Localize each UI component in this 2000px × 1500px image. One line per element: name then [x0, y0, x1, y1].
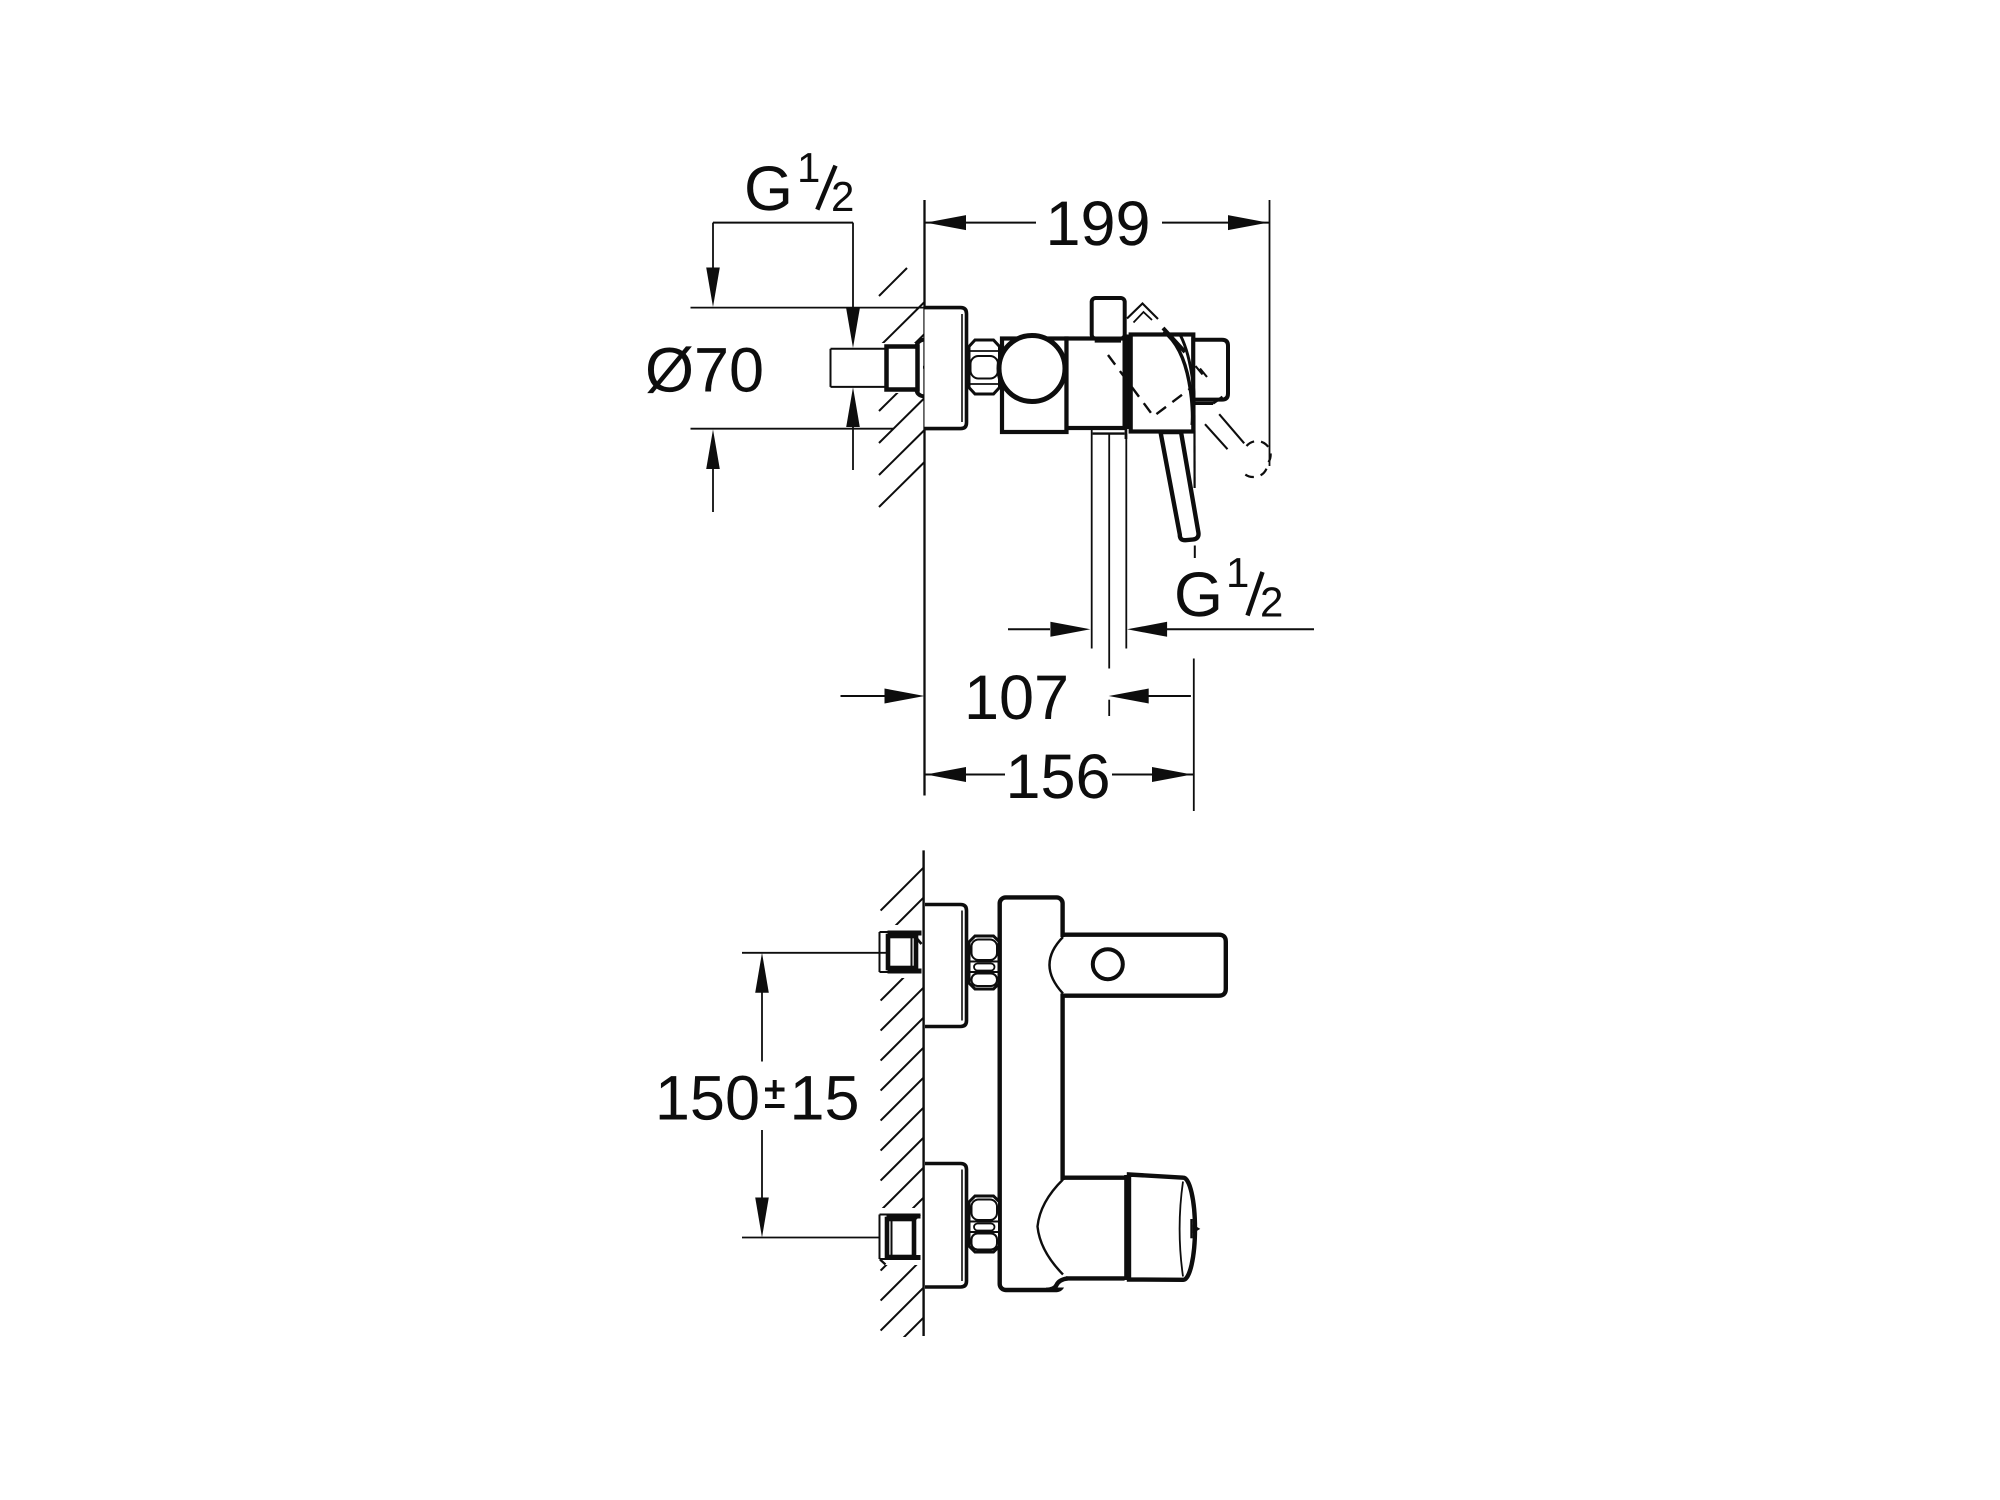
dimension 107: [841, 695, 887, 697]
upper fitting sleeve: [880, 932, 889, 972]
svg-text:199: 199: [1045, 189, 1150, 259]
svg-text:2: 2: [831, 173, 854, 220]
wall hatching (side view): [879, 268, 925, 507]
escutcheon flange (side view): [925, 308, 967, 429]
upper fitting collar: [888, 931, 922, 936]
upper escutcheon flange (front view): [925, 905, 967, 1027]
plus-minus symbol of 150 dim: [765, 1080, 785, 1106]
G1/2 inlet sleeve (side view): [831, 349, 887, 387]
lower escutcheon flange (front view): [925, 1164, 967, 1288]
extension line hose right: [1125, 434, 1127, 649]
pointer right (G1/2 pipe): [852, 223, 854, 310]
aerator: [1194, 399, 1216, 401]
extension line right of 199: [1269, 200, 1271, 466]
lower union square: [887, 1219, 914, 1257]
svg-text:1: 1: [1226, 549, 1249, 596]
mixer body mid section: [1067, 339, 1125, 429]
svg-text:G: G: [1174, 560, 1223, 630]
mixer body (front view): [1000, 897, 1063, 1290]
handle base wedge: [1164, 332, 1193, 426]
svg-text:1: 1: [797, 144, 820, 191]
extension line hose centerline: [1108, 434, 1110, 669]
white mask behind inlet fitting: [828, 343, 923, 393]
dimension G1/2 top label line: [713, 222, 853, 224]
dimension 156: [925, 774, 1006, 776]
white masks behind fittings: [877, 925, 924, 978]
svg-text:107: 107: [964, 663, 1069, 733]
pointer left (d70): [712, 223, 714, 270]
wall hatching (front view): [881, 868, 924, 1361]
svg-text:2: 2: [1260, 579, 1283, 626]
flange highlight line: [961, 314, 963, 422]
extension line hose left: [1091, 430, 1093, 649]
slash of G1/2 top: [817, 166, 835, 210]
svg-text:15: 15: [790, 1064, 860, 1134]
extension lines 150: [742, 952, 887, 954]
lower fitting collar: [887, 1214, 921, 1219]
dimension 150+-15: [755, 953, 769, 993]
slash of G1/2 lower: [1248, 572, 1263, 616]
collar fillets at wall: [916, 340, 924, 349]
lower fitting sleeve: [880, 1215, 888, 1260]
hex nut (side view): [969, 340, 1000, 394]
svg-text:G: G: [744, 154, 793, 224]
extension line right of 156: [1193, 659, 1195, 812]
black ring (front view): [1124, 1175, 1130, 1280]
handle knob cylinder (front view): [1129, 1175, 1195, 1280]
spout arm (front view): [1058, 937, 1223, 994]
upper hex nut (front view): [969, 936, 1000, 989]
cartridge ring (black band): [1125, 335, 1131, 430]
pivot marks: [1127, 304, 1207, 378]
body bottom step: [1054, 1274, 1065, 1288]
lever centerline dash: [1194, 546, 1196, 559]
svg-text:Ø70: Ø70: [645, 336, 764, 406]
stub fillet: [1038, 1180, 1064, 1275]
upper union square: [888, 936, 916, 968]
texts: [645, 144, 1283, 1134]
temperature nub: [1190, 1219, 1192, 1238]
dimension G1/2 lower: [1008, 628, 1050, 630]
hose nipple below body: [1093, 432, 1125, 434]
diverter knob: [1092, 298, 1125, 339]
spout (side view): [1193, 340, 1228, 400]
wall line (side view): [923, 200, 925, 796]
body right section: [1131, 335, 1194, 432]
arm fillet: [1050, 937, 1064, 994]
d70 extension lines: [691, 307, 925, 309]
union square (side view): [887, 347, 918, 390]
svg-text:150: 150: [655, 1064, 760, 1134]
lever (solid, down position): [1161, 432, 1199, 540]
ball joint: [999, 336, 1065, 402]
swing silhouette (dashed): [1108, 355, 1191, 416]
svg-text:156: 156: [1005, 742, 1110, 812]
dimension 199: [925, 222, 1270, 224]
raised lever (dashed): [1205, 414, 1244, 449]
mixer body housing (side view): [1002, 339, 1067, 433]
wall line (front view): [922, 850, 924, 1336]
handle stub (front view): [1059, 1180, 1124, 1276]
lower hex nut (front view): [969, 1196, 1000, 1252]
spout hole: [1093, 949, 1123, 979]
